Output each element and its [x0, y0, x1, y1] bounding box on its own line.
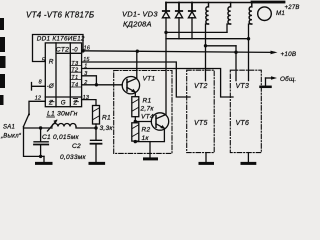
wire to VT4 base — [135, 121, 151, 123]
svg-text:VT1: VT1 — [143, 76, 156, 83]
svg-text:М1: М1 — [276, 10, 285, 17]
wire collector bus stage1 — [166, 31, 227, 33]
svg-text:+10В: +10В — [281, 51, 297, 58]
svg-text:DD1 К176ИЕ12: DD1 К176ИЕ12 — [37, 36, 85, 43]
wire pin12 to oscillator — [29, 101, 45, 114]
junction R2 emitter — [134, 140, 137, 143]
junction VD1 bus — [164, 31, 167, 34]
svg-text:R2: R2 — [142, 127, 151, 134]
motor winding A — [206, 3, 209, 25]
svg-text:VT5: VT5 — [194, 120, 208, 127]
+27V top bus wire — [166, 2, 284, 4]
junction stage2 link — [204, 44, 207, 47]
svg-text:VT2: VT2 — [194, 83, 208, 90]
diode VD2 — [175, 3, 182, 18]
wire L1 to R1 C2 node — [76, 127, 96, 129]
ground symbol under C2 — [90, 162, 104, 165]
IC internal dividers — [45, 43, 81, 107]
wire down into stage3 — [235, 46, 237, 81]
transistor VT4 — [151, 113, 168, 130]
svg-text:L1: L1 — [47, 111, 55, 118]
svg-text:Т2: Т2 — [71, 68, 79, 74]
svg-text:2,7к: 2,7к — [140, 106, 155, 113]
svg-text:С1 0,015мк: С1 0,015мк — [42, 134, 80, 141]
wire R1 to junction — [134, 117, 136, 122]
resistor R1 3.3k — [93, 106, 100, 125]
ground symbol stage3 — [247, 153, 249, 162]
svg-text:Z: Z — [48, 100, 53, 107]
svg-text:R1: R1 — [143, 98, 152, 105]
junction C1 top — [39, 126, 42, 129]
wire VD3 down — [191, 18, 193, 39]
dashed box stage 2 — [187, 70, 215, 152]
motor winding C — [249, 3, 252, 25]
wire VT4 emitter down — [135, 128, 164, 141]
resistor R1 2.7k — [132, 97, 139, 117]
svg-text:R: R — [49, 59, 54, 66]
ground symbol bottom left — [43, 156, 45, 162]
wire oscillator node left — [24, 127, 53, 129]
svg-text:R1: R1 — [102, 115, 111, 122]
motor winding B — [228, 3, 231, 25]
svg-text:SA1: SA1 — [3, 125, 15, 131]
svg-text:3,3к: 3,3к — [100, 125, 114, 132]
wire emitter to ground — [149, 142, 151, 158]
junction rail stage3 — [234, 51, 237, 54]
node +10V arrow — [271, 51, 278, 55]
wire winding B down — [227, 24, 231, 32]
wire winding C to stage3 — [249, 24, 252, 81]
svg-text:Т3: Т3 — [71, 61, 79, 67]
svg-text:0,033мк: 0,033мк — [60, 154, 87, 161]
scan edge artifacts left border — [0, 18, 6, 105]
svg-text:С2: С2 — [72, 143, 81, 150]
svg-text:+27В: +27В — [285, 5, 300, 11]
svg-text:VT4: VT4 — [141, 114, 154, 121]
motor M1 symbol — [258, 7, 272, 21]
wire R feedback loop over IC — [33, 35, 84, 62]
L1 tuning arrow — [48, 121, 57, 132]
wire stage2 to stage3 link — [206, 45, 237, 47]
svg-text:-Ø: -Ø — [47, 84, 54, 90]
svg-text:VT6: VT6 — [236, 120, 250, 127]
wire T2 output to stage3 base — [82, 69, 233, 98]
svg-text:G: G — [61, 100, 66, 107]
svg-text:1к: 1к — [142, 135, 150, 142]
switch SA1 — [24, 114, 30, 127]
wire winding A to stage2 — [206, 24, 209, 81]
dashed box stage 1 — [114, 71, 172, 154]
svg-text:Т1: Т1 — [71, 75, 78, 81]
junction VT1 collector on rail — [136, 50, 139, 53]
wire +10V rail — [82, 51, 274, 53]
svg-text:VT4 -VT6 КТ817Б: VT4 -VT6 КТ817Б — [26, 11, 94, 20]
diode VD3 — [188, 3, 195, 18]
junction winding C VD3 — [247, 37, 250, 40]
junction pin16 loop — [81, 49, 84, 52]
transistor VT1 — [122, 77, 139, 94]
wire VT1 collector up — [136, 51, 138, 78]
wire VT1 emitter to R1 — [134, 92, 136, 97]
wire VD1 cathode down / VT4 collector — [165, 18, 167, 115]
junction C1 bottom rail — [39, 155, 42, 158]
svg-text:Z: Z — [73, 100, 78, 107]
svg-text:„Выкл“: „Выкл“ — [0, 134, 22, 140]
inductor L1 — [52, 124, 76, 127]
common terminal symbol — [266, 77, 273, 79]
wire T4 output to VT1 base — [82, 84, 123, 86]
junction L1 R1 C2 — [94, 126, 97, 129]
diode VD1 — [162, 3, 169, 18]
wire switch to bottom rail — [24, 127, 45, 157]
svg-text:VD1- VD3: VD1- VD3 — [122, 10, 158, 19]
svg-text:Т4: Т4 — [71, 82, 78, 88]
wire T1 output jog — [82, 76, 97, 85]
dashed box stage 3 — [230, 70, 261, 152]
svg-text:-0: -0 — [72, 48, 78, 54]
svg-text:КД208А: КД208А — [123, 20, 152, 29]
wire VD2 down — [178, 18, 180, 39]
ground symbol stage1 — [145, 157, 157, 160]
svg-text:8: 8 — [39, 80, 42, 86]
svg-text:VT3: VT3 — [236, 83, 250, 90]
svg-text:30мГн: 30мГн — [57, 111, 78, 118]
junction R1 R2 VT4 base — [134, 120, 137, 123]
IC DD1 K176IE12 outline — [45, 43, 81, 107]
Z strike marks — [49, 101, 78, 103]
svg-text:СТ2: СТ2 — [56, 47, 69, 54]
ground symbol stage2 — [205, 153, 207, 162]
wire VD3 level — [166, 38, 249, 40]
wire T3 output to stage2 base — [82, 62, 190, 97]
svg-text:Общ.: Общ. — [280, 75, 297, 83]
wire R1 bottom to C2 — [95, 124, 97, 140]
wire pin13 to R1 — [82, 100, 96, 106]
capacitor C1 — [34, 128, 48, 156]
junction T1 T4 — [95, 83, 98, 86]
wire pin8 common — [32, 83, 46, 91]
capacitor C2 — [91, 140, 102, 162]
resistor R2 1k — [132, 123, 139, 141]
